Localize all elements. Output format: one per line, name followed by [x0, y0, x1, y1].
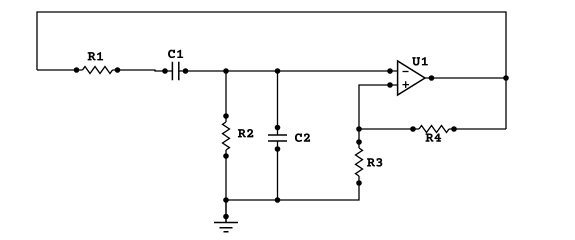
wire: right rail to R4	[454, 128, 506, 130]
node: op-amp non-inverting input	[387, 82, 393, 88]
node: ground junction on bottom rail	[223, 197, 229, 203]
label C1	[168, 50, 183, 59]
label U1	[412, 57, 428, 66]
node: output / right rail junction	[503, 75, 509, 81]
wire: R4 leads	[413, 128, 454, 130]
resistor R3	[356, 148, 363, 176]
node: R1 right terminal	[115, 67, 121, 73]
node: junction R2 / input line	[223, 68, 229, 74]
wire: node A to R4	[359, 128, 413, 130]
wire: op-amp output	[425, 77, 506, 79]
op-amp U1 minus sign	[403, 71, 409, 73]
ground	[214, 200, 238, 232]
node: ground stem	[223, 214, 229, 220]
resistor R1	[83, 67, 113, 74]
node: C1 right terminal	[183, 68, 189, 74]
op-amp U1	[398, 61, 425, 95]
label R1	[88, 52, 103, 60]
wire: C1 to op-amp inverting input	[179, 70, 398, 72]
resistor R2	[223, 122, 230, 150]
node: R1 left terminal	[74, 67, 80, 73]
node: C2 bottom terminal	[275, 146, 281, 152]
capacitor C2	[268, 135, 287, 141]
node: junction C2 / input line	[275, 68, 281, 74]
label R3	[367, 158, 382, 167]
node: R3 bottom terminal	[356, 180, 362, 186]
node: R4 left terminal	[410, 126, 416, 132]
node: C2 top terminal	[275, 125, 281, 131]
node: C2 bottom rail junction	[275, 197, 281, 203]
wire: C2 to bottom rail	[277, 141, 279, 200]
node: R4 right terminal	[451, 126, 457, 132]
wire: R2 branch upper	[225, 71, 227, 122]
node: C1 left terminal	[162, 68, 168, 74]
label R4	[426, 133, 442, 141]
node: R2 bottom terminal	[223, 153, 229, 159]
node: op-amp output	[429, 75, 435, 81]
label C2	[295, 133, 310, 142]
node: feedback junction A	[356, 126, 362, 132]
wire: bottom rail	[226, 176, 359, 200]
op-amp U1 plus sign	[403, 81, 410, 88]
node: op-amp inverting input	[387, 68, 393, 74]
label R2	[238, 129, 253, 137]
wire: feedback loop (left rail, top rail, right rail)	[37, 12, 506, 129]
node: R2 top terminal	[223, 113, 229, 119]
node: R3 top terminal	[356, 139, 362, 145]
wire: R1 to C1 (with jog)	[113, 70, 173, 71]
wire: R2 to bottom rail	[225, 150, 227, 200]
resistor R4	[419, 126, 449, 133]
wire: non-inverting input branch	[359, 85, 398, 148]
wire: input line left segment to R1	[37, 69, 83, 71]
wire: C2 branch upper	[277, 71, 279, 135]
capacitor C1	[172, 62, 178, 80]
